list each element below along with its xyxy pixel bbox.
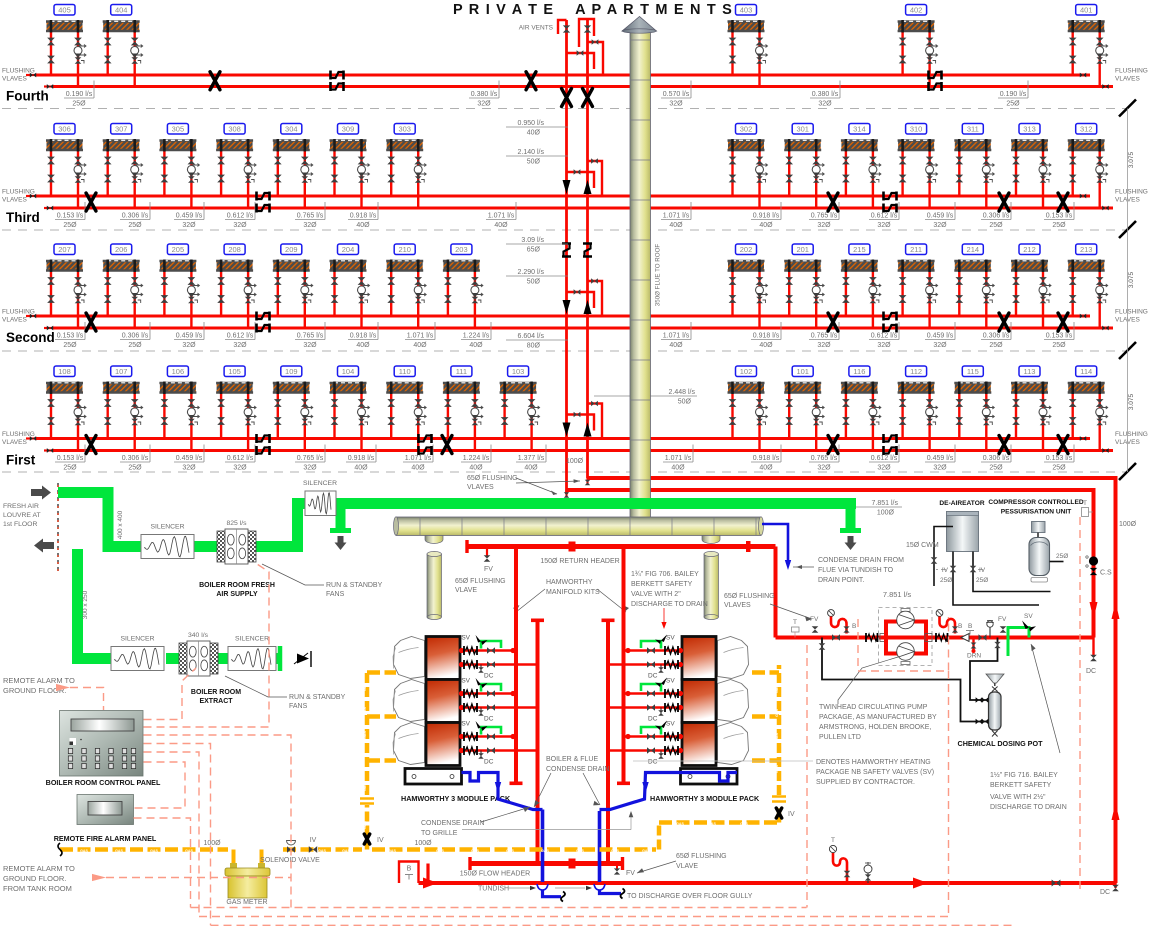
svg-text:TWINHEAD CIRCULATING PUMP: TWINHEAD CIRCULATING PUMP [819, 704, 928, 711]
leader run&standby fans (supply) [262, 564, 324, 585]
svg-text:PACKAGE, AS MANUFACTURED BY: PACKAGE, AS MANUFACTURED BY [819, 714, 937, 721]
svg-text:VLAVES: VLAVES [2, 439, 27, 446]
storey dimension tick Third [1119, 221, 1136, 238]
svg-text:32Ø: 32Ø [877, 465, 891, 472]
label 65dia FLUSHING VLAVE (flow header) [676, 853, 727, 870]
label flow 0.765 l/s 32mm Second [809, 322, 839, 349]
CWM line + valve [906, 527, 953, 587]
label FLUSHING VLAVES left Second [2, 309, 35, 324]
svg-text:0.306 l/s: 0.306 l/s [983, 213, 1010, 220]
leader run&standby fans (extract) [225, 676, 287, 697]
svg-text:101: 101 [796, 367, 809, 376]
sensor T on pump line [792, 619, 800, 638]
svg-text:LOUVRE AT: LOUVRE AT [3, 512, 41, 519]
svg-text:32Ø: 32Ø [817, 465, 831, 472]
air vent jog valves [588, 42, 604, 74]
gauge + syphon left of pump [828, 610, 857, 634]
wire return riser [565, 20, 568, 494]
floor group: Third floor [2, 124, 1148, 239]
valve X isolating First @1004 [999, 436, 1009, 454]
safety valve SV module L2 [461, 678, 501, 692]
svg-text:DC: DC [648, 673, 658, 680]
svg-text:GAS: GAS [775, 709, 779, 717]
svg-text:VLAVES: VLAVES [724, 602, 751, 609]
radiator 112 [898, 366, 938, 451]
svg-text:DC: DC [1086, 668, 1096, 675]
radiator 204 [330, 244, 370, 328]
svg-text:1.224 l/s: 1.224 l/s [463, 455, 490, 462]
wire alarm: vertical x=807 [806, 645, 808, 908]
label flow 0.306 l/s 25mm First [981, 445, 1011, 472]
duct extract (green) [78, 549, 112, 659]
isolating valve IV on gas [309, 837, 317, 853]
svg-text:VLAVES: VLAVES [2, 76, 27, 83]
label riser 0.950 l/s 40dia [506, 120, 568, 137]
wire pump line [776, 636, 1094, 640]
label riser 2.448 l/s 50dia [594, 389, 697, 406]
svg-text:2.140 l/s: 2.140 l/s [518, 149, 545, 156]
pipe module L2 upper connection [459, 689, 516, 698]
label flow 0.918 l/s 40mm Third [348, 202, 378, 229]
label REMOTE ALARM TO GROUND FLOOR (top) [3, 676, 75, 695]
svg-text:0.153 l/s: 0.153 l/s [1046, 333, 1073, 340]
svg-text:IV: IV [310, 837, 317, 844]
svg-text:SV: SV [666, 635, 675, 642]
svg-text:40Ø: 40Ø [356, 342, 370, 349]
svg-text:DC: DC [484, 673, 494, 680]
svg-text:0.190 l/s: 0.190 l/s [1000, 91, 1027, 98]
svg-text:25Ø: 25Ø [1052, 222, 1066, 229]
svg-text:40Ø: 40Ø [671, 465, 685, 472]
wire Third flow main (upper) [36, 195, 1090, 198]
svg-text:340 l/s: 340 l/s [188, 632, 209, 639]
svg-text:1½" FIG 716. BAILEY: 1½" FIG 716. BAILEY [990, 771, 1058, 779]
svg-text:GAS: GAS [363, 731, 367, 739]
svg-text:VLAVES: VLAVES [2, 317, 27, 324]
svg-text:DC: DC [484, 716, 494, 723]
svg-text:212: 212 [1023, 245, 1036, 254]
floor group: First floor [2, 366, 1148, 480]
svg-text:GAS: GAS [150, 849, 158, 853]
radiator 107 [103, 366, 143, 451]
svg-text:Second: Second [6, 330, 55, 345]
flushing valve FV on flow header [614, 866, 635, 877]
svg-text:2.290 l/s: 2.290 l/s [518, 269, 545, 276]
label flow 0.153 l/s 25mm First [1044, 445, 1074, 472]
svg-text:25Ø: 25Ø [1052, 465, 1066, 472]
svg-text:Third: Third [6, 210, 40, 225]
svg-text:FLUSHING: FLUSHING [2, 309, 35, 316]
svg-text:3.075: 3.075 [1128, 151, 1135, 168]
label flow 0.153 l/s 25mm Second [1044, 322, 1074, 349]
label 7.851 l/s 100dia (run) [855, 500, 902, 517]
label FLUSHING VLAVES right Third [1115, 189, 1148, 204]
svg-text:32Ø: 32Ø [233, 465, 247, 472]
boiler module L3 heat exchanger [426, 723, 460, 766]
label flow 0.765 l/s 32mm Third [295, 202, 325, 229]
svg-text:404: 404 [115, 6, 128, 15]
svg-text:FV: FV [626, 870, 635, 877]
pipe module L3 upper connection [459, 732, 516, 741]
leader condense drain text [793, 566, 814, 568]
flushing valve right lower Fourth [1102, 84, 1108, 89]
boiler flue stub left [425, 536, 443, 544]
svg-text:303: 303 [398, 125, 411, 134]
silencer fresh air [141, 524, 194, 559]
check valve on pump line [961, 634, 969, 642]
flushing valve FV on return header [484, 549, 494, 573]
svg-text:VLAVES: VLAVES [1115, 76, 1140, 83]
union connector pair First @425 [419, 434, 432, 455]
valve on pump line right [979, 634, 987, 640]
radiator 405 [46, 5, 86, 87]
arrow flow up lower (x=1115) [1112, 803, 1120, 820]
boiler flue cylinder left [427, 551, 442, 619]
label flow 0.153 l/s 25mm Third [1044, 202, 1074, 229]
arrow flow up (x=1115) [1112, 602, 1120, 619]
svg-text:25Ø: 25Ø [989, 465, 1003, 472]
svg-text:305: 305 [172, 125, 185, 134]
label CONDENSE DRAIN FROM FLUE VIA TUNDISH TO DRAIN POINT [818, 557, 904, 584]
svg-text:100Ø: 100Ø [566, 458, 584, 465]
flushing valve left upper Second [26, 314, 36, 319]
flushing valve left upper Fourth [26, 73, 36, 78]
label flow 1.071 l/s 40mm First [403, 445, 433, 472]
svg-text:205: 205 [172, 245, 185, 254]
svg-text:32Ø: 32Ø [477, 101, 491, 108]
label flow 0.918 l/s 40mm First [751, 445, 781, 472]
svg-text:0.306 l/s: 0.306 l/s [983, 333, 1010, 340]
svg-text:214: 214 [967, 245, 980, 254]
svg-text:7.851 l/s: 7.851 l/s [872, 500, 899, 507]
pressurisation unit pipe [1050, 553, 1069, 562]
label 65dia FLUSHING VLAVES (risers) [467, 475, 518, 491]
svg-text:116: 116 [853, 367, 865, 376]
union connector pair First @263 [257, 434, 270, 455]
svg-text:40Ø: 40Ø [527, 130, 541, 137]
drain cock DC bottom right [1100, 883, 1119, 896]
wire Fourth flow main (upper) [36, 74, 1090, 77]
pipe module R2 lower connection [608, 703, 683, 712]
svg-text:GAS: GAS [471, 849, 479, 853]
svg-text:3.075: 3.075 [1128, 393, 1135, 410]
svg-text:ARMSTRONG, HOLDEN BROOKE,: ARMSTRONG, HOLDEN BROOKE, [819, 724, 931, 731]
svg-text:0.612 l/s: 0.612 l/s [227, 455, 254, 462]
svg-text:0.459 l/s: 0.459 l/s [927, 455, 954, 462]
svg-text:0.380 l/s: 0.380 l/s [471, 91, 498, 98]
svg-text:GAS: GAS [363, 821, 367, 829]
svg-text:0.612 l/s: 0.612 l/s [871, 333, 898, 340]
svg-text:B: B [407, 866, 412, 873]
radiator 404 [103, 5, 143, 87]
svg-text:0.918 l/s: 0.918 l/s [348, 455, 375, 462]
wire Third return main (lower) [53, 207, 1113, 210]
radiator 103 [500, 366, 540, 451]
svg-text:32Ø: 32Ø [933, 342, 947, 349]
floor separator dashed line Second [2, 350, 1128, 352]
svg-text:40Ø: 40Ø [356, 222, 370, 229]
radiator 213 [1068, 244, 1108, 328]
svg-text:FV: FV [484, 566, 493, 573]
svg-text:DRAIN POINT.: DRAIN POINT. [818, 577, 864, 584]
label flow 0.612 l/s 32mm First [225, 445, 255, 472]
svg-text:0.380 l/s: 0.380 l/s [812, 91, 839, 98]
label flow 0.459 l/s 32mm First [925, 445, 955, 472]
svg-text:0.570 l/s: 0.570 l/s [663, 91, 690, 98]
label FLUSHING VLAVES left Fourth [2, 68, 35, 83]
wire alarm: panel run via x=210.5 [144, 744, 211, 926]
label flow 0.153 l/s 25mm Third [55, 202, 85, 229]
svg-text:SILENCER: SILENCER [121, 636, 155, 643]
svg-text:312: 312 [1080, 125, 1093, 134]
boiler module R3 burner casing [718, 723, 749, 765]
silencer extract 1 [111, 636, 164, 671]
svg-text:100Ø: 100Ø [203, 840, 221, 847]
flushing valve riser right [585, 478, 591, 485]
radiator 203 [443, 244, 483, 328]
svg-text:Fourth: Fourth [6, 89, 49, 104]
svg-text:GAS: GAS [708, 822, 716, 826]
svg-text:GAS: GAS [318, 849, 326, 853]
valve X isolating Fourth @215 [210, 72, 220, 90]
label RUN & STANDBY FANS (supply) [326, 582, 383, 598]
svg-text:GAS: GAS [506, 849, 514, 853]
pipe flow manifold left (x=537.5) [531, 619, 544, 864]
svg-text:0.765 l/s: 0.765 l/s [297, 213, 324, 220]
label flow 0.306 l/s 25mm Second [120, 322, 150, 349]
union connector pair Fourth @337 [331, 71, 344, 92]
safety valve SV module R1 [641, 635, 675, 649]
silencer upper right [303, 480, 337, 516]
drain DRN stub [967, 638, 981, 660]
gas riser right pack [772, 665, 795, 823]
svg-text:RUN & STANDBY: RUN & STANDBY [326, 582, 383, 589]
drain cock DC on return vertical [1086, 638, 1097, 676]
valve FV on pump line 2 [998, 616, 1007, 633]
svg-text:301: 301 [796, 125, 809, 134]
label flow 0.459 l/s 32mm Third [174, 202, 204, 229]
svg-text:0.612 l/s: 0.612 l/s [227, 213, 254, 220]
svg-text:RUN & STANDBY: RUN & STANDBY [289, 694, 346, 701]
radiator 207 [46, 244, 86, 328]
riser branch at floor y=316 [563, 278, 603, 316]
label flow 0.765 l/s 32mm First [295, 445, 325, 472]
svg-text:1.377 l/s: 1.377 l/s [518, 455, 545, 462]
condense drain right pack (blue trap) [600, 773, 738, 810]
svg-text:FLUSHING: FLUSHING [1115, 431, 1148, 438]
svg-text:106: 106 [172, 367, 185, 376]
svg-text:FANS: FANS [326, 591, 345, 598]
label DENOTES HAMWORTHY [816, 759, 934, 786]
flushing valve right upper Second [1080, 314, 1086, 319]
svg-text:110: 110 [399, 367, 411, 376]
valve X isolating Third @1004 [999, 193, 1009, 211]
svg-text:65Ø FLUSHING: 65Ø FLUSHING [676, 853, 727, 860]
svg-text:313: 313 [1023, 125, 1036, 134]
drain cock DC module R2 [648, 708, 664, 723]
svg-text:40Ø: 40Ø [354, 465, 368, 472]
wire alarm: panel to fire alarm panel [134, 762, 186, 808]
label flow 0.570 l/s 32mm Fourth [661, 81, 691, 108]
label flow 0.612 l/s 32mm Third [869, 202, 899, 229]
svg-text:CONDENSE DRAIN: CONDENSE DRAIN [421, 820, 484, 827]
valve X pair on risers below fourth floor [562, 89, 593, 107]
label riser 2.290 l/s 50dia [506, 269, 568, 286]
svg-text:VLAVE: VLAVE [676, 863, 698, 870]
radiator 104 [330, 366, 370, 451]
wire alarm: panel run via x=199 [144, 752, 200, 917]
radiator 306 [46, 124, 86, 209]
svg-text:80Ø: 80Ø [527, 343, 541, 350]
valve X isolating Third @1063 [1058, 193, 1068, 211]
label flow 0.306 l/s 25mm Third [981, 202, 1011, 229]
svg-text:GAS METER: GAS METER [226, 899, 267, 906]
svg-text:1.071 l/s: 1.071 l/s [407, 333, 434, 340]
label flow 0.190 l/s 25mm Fourth [64, 81, 94, 108]
label FLUSHING VLAVES right Fourth [1115, 68, 1148, 83]
svg-text:1.071 l/s: 1.071 l/s [663, 333, 690, 340]
floor separator dashed line First [2, 471, 1128, 473]
svg-text:207: 207 [58, 245, 71, 254]
leader manifold kits left [516, 589, 545, 612]
valve X isolating Second @833 [828, 313, 838, 331]
svg-text:206: 206 [115, 245, 128, 254]
svg-text:GAS: GAS [775, 765, 779, 773]
gauge + syphon on bottom line [829, 837, 850, 883]
svg-text:40Ø: 40Ø [469, 465, 483, 472]
svg-text:300 x 250: 300 x 250 [82, 590, 89, 619]
radiator 111 [443, 366, 483, 451]
svg-text:SOLENOID VALVE: SOLENOID VALVE [260, 857, 320, 864]
leader to SV from fig716 text [1031, 644, 1060, 753]
svg-text:TUNDISH: TUNDISH [478, 886, 509, 893]
svg-text:CONDENSE DRAIN FROM: CONDENSE DRAIN FROM [818, 557, 904, 564]
svg-text:104: 104 [342, 367, 355, 376]
label flow 0.459 l/s 32mm First [174, 445, 204, 472]
valve X isolating Second @1063 [1058, 313, 1068, 331]
label flow 0.918 l/s 40mm Second [751, 322, 781, 349]
storey dimension tick Fourth [1119, 100, 1136, 117]
svg-text:25Ø: 25Ø [1052, 342, 1066, 349]
svg-text:FLUSHING: FLUSHING [1115, 309, 1148, 316]
radiator 115 [954, 366, 994, 451]
radiator 109 [273, 366, 313, 451]
svg-text:GAS: GAS [363, 683, 367, 691]
svg-text:0.153 l/s: 0.153 l/s [57, 455, 84, 462]
drain cock DC module R3 [648, 751, 664, 766]
union connector pair Second @890 [884, 312, 897, 333]
svg-text:TO GRILLE: TO GRILLE [421, 830, 458, 837]
svg-text:0.459 l/s: 0.459 l/s [176, 333, 203, 340]
svg-text:0.153 l/s: 0.153 l/s [57, 213, 84, 220]
svg-text:GAS: GAS [642, 849, 650, 853]
svg-text:DRN: DRN [967, 653, 981, 660]
wire alarm: tank room arrow [92, 874, 291, 881]
label flow 0.380 l/s 32mm Fourth [469, 81, 499, 108]
svg-text:209: 209 [285, 245, 298, 254]
svg-text:BOILER ROOM FRESH: BOILER ROOM FRESH [199, 582, 275, 589]
radiator 402 [898, 5, 938, 87]
flushing valve right upper First [1080, 436, 1086, 441]
valve on pump line (left) [832, 634, 840, 640]
svg-text:311: 311 [967, 125, 979, 134]
boiler pack left base plinth [405, 769, 462, 785]
svg-text:32Ø: 32Ø [303, 222, 317, 229]
pipe module L2 lower connection [459, 703, 538, 712]
svg-text:40Ø: 40Ø [524, 465, 538, 472]
svg-text:T: T [793, 619, 797, 626]
radiator 114 [1068, 366, 1108, 451]
radiator 312 [1068, 124, 1108, 209]
svg-text:SV: SV [666, 678, 675, 685]
pipe return manifold left (x=516) [510, 547, 523, 786]
svg-text:50Ø: 50Ø [527, 279, 541, 286]
svg-text:0.918 l/s: 0.918 l/s [350, 333, 377, 340]
radiator 110 [386, 366, 426, 451]
label CONDENSE DRAIN TO GRILLE + leader [421, 807, 633, 837]
label flow 0.612 l/s 32mm Third [225, 202, 255, 229]
remote fire alarm panel [77, 795, 134, 825]
svg-text:SV: SV [461, 635, 470, 642]
svg-text:GAS: GAS [541, 849, 549, 853]
pipe flow manifold right (x=602.5) [602, 619, 615, 864]
wire alarm: panel to extract fan [144, 668, 197, 720]
svg-text:SUPPLIED BY CONTRACTOR.: SUPPLIED BY CONTRACTOR. [816, 779, 915, 786]
svg-text:GAS: GAS [611, 849, 619, 853]
boiler module R2 heat exchanger [682, 680, 716, 723]
label flow 0.153 l/s 25mm Second [55, 322, 85, 349]
svg-text:DC: DC [648, 716, 658, 723]
svg-text:REMOTE ALARM TO: REMOTE ALARM TO [3, 864, 75, 873]
radiator 309 [330, 124, 370, 209]
svg-text:0.459 l/s: 0.459 l/s [176, 455, 203, 462]
svg-text:MANIFOLD KITS: MANIFOLD KITS [546, 589, 600, 596]
svg-text:25Ø: 25Ø [976, 577, 988, 584]
svg-text:FLUSHING: FLUSHING [2, 189, 35, 196]
air vent on pump line [986, 621, 994, 638]
boiler module R3 heat exchanger [682, 723, 716, 766]
radiator 106 [159, 366, 199, 451]
leader pump text [838, 657, 898, 704]
svg-text:40Ø: 40Ø [759, 465, 773, 472]
radiator 311 [954, 124, 994, 209]
flex connector right of pump [925, 633, 948, 642]
svg-text:GAS: GAS [576, 849, 584, 853]
flushing valve right upper Third [1080, 194, 1086, 199]
radiator 212 [1011, 244, 1051, 328]
flushing valve right lower First [1102, 448, 1108, 453]
label flow 0.612 l/s 32mm Second [869, 322, 899, 349]
radiator 205 [159, 244, 199, 328]
svg-text:1.071 l/s: 1.071 l/s [663, 213, 690, 220]
drain cock DC module R1 [648, 665, 664, 680]
label flow 0.765 l/s 32mm Second [295, 322, 325, 349]
wire Fourth return main (lower) [53, 85, 1113, 88]
pipe module R1 lower connection [608, 660, 683, 669]
svg-text:P R I V A T E A P A R T M E: P R I V A T E A P A R T M E N T S [453, 2, 733, 18]
gas main horizontal [58, 843, 656, 856]
condense drain left pack (blue trap) [462, 773, 543, 810]
svg-text:302: 302 [740, 125, 753, 134]
svg-text:25Ø: 25Ø [72, 101, 86, 108]
radiator 206 [103, 244, 143, 328]
svg-text:401: 401 [1080, 6, 1093, 15]
flushing valve right lower Third [1102, 206, 1108, 211]
valve below line at 997 [994, 638, 1000, 649]
boiler module R1 heat exchanger [682, 637, 716, 680]
svg-text:40Ø: 40Ø [413, 342, 427, 349]
svg-text:25Ø: 25Ø [63, 342, 77, 349]
